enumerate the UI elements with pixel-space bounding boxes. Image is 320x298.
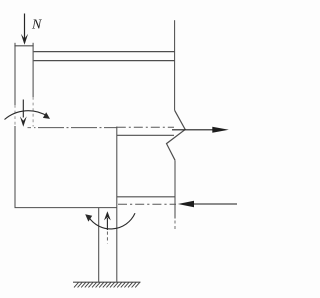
beam top line [34, 51, 175, 53]
moment arc lower [85, 213, 135, 229]
svg-text:N: N [31, 18, 42, 33]
beam centerline dash-dot [117, 126, 174, 128]
beam right edge vertical (above break) [174, 20, 176, 110]
beam lower flange line at panel [117, 134, 174, 136]
beam right edge vertical (below break) [174, 160, 176, 218]
shear arrow right [172, 127, 229, 133]
moment arc upper [5, 111, 51, 120]
lower column right edge [116, 208, 118, 283]
upper column left edge / panel left edge [14, 43, 16, 105]
ground line [73, 281, 141, 283]
panel top edge [38, 127, 117, 129]
shear arrow left [178, 201, 237, 207]
force N arrow [21, 14, 28, 45]
panel bottom edge [15, 207, 117, 209]
panel top edge start dashes [28, 127, 39, 129]
axial arrow up in lower column [104, 211, 111, 243]
beam second line [34, 60, 175, 62]
ground hatching [74, 282, 140, 287]
panel right edge [116, 127, 118, 208]
down arrow in upper column [20, 100, 27, 127]
lower column left edge [98, 208, 100, 283]
break zigzag [167, 110, 186, 160]
upper column top edge [14, 45, 33, 47]
upper column right edge [32, 43, 34, 97]
lower beam top line [117, 196, 175, 198]
lower beam centerline dash-dot [118, 203, 176, 205]
